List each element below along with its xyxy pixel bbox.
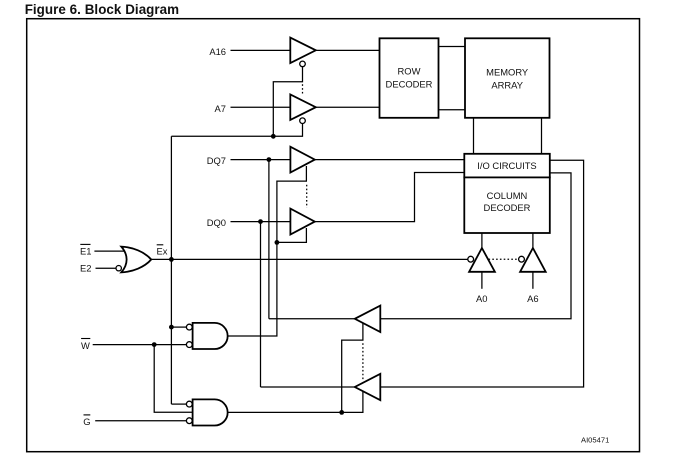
node W branch junction (152, 342, 157, 347)
or gate E1 E2 (121, 247, 151, 273)
wire Ex vertical (170, 136, 172, 404)
buffer DQ7 (290, 147, 314, 173)
svg-text:MEMORY: MEMORY (486, 67, 529, 78)
wire A6 buffer input stub (532, 272, 534, 289)
bubble G gate upper input (186, 401, 192, 407)
wire E2 input (96, 267, 117, 269)
node read enable junction (339, 410, 344, 415)
wire E1 input (94, 250, 124, 252)
svg-text:DECODER: DECODER (386, 79, 433, 90)
bubble W gate upper input (186, 324, 192, 330)
wire memory array to io circuits left (473, 118, 475, 155)
svg-text:A6: A6 (527, 293, 538, 304)
buffer A0 (469, 248, 495, 272)
svg-text:A16: A16 (209, 46, 226, 57)
wire Ex to G gate (171, 403, 186, 405)
svg-text:DECODER: DECODER (484, 202, 531, 213)
svg-text:DQ7: DQ7 (207, 155, 226, 166)
wire dotted ellipsis A0-A6 (489, 258, 519, 260)
wire DQ0 buffer to io circuits (313, 173, 465, 222)
wire dotted ellipsis DQ7-DQ0 (306, 185, 308, 208)
wire W branch to G gate (154, 345, 193, 413)
bubble A0 enable (468, 256, 474, 262)
wire G input (95, 420, 186, 422)
svg-text:E2: E2 (80, 263, 91, 274)
box memory array (465, 38, 550, 118)
bubble A16 enable (300, 61, 306, 67)
buffer A7 (290, 95, 316, 120)
bubble A6 enable (519, 256, 525, 262)
wire DQ7 buffer to io circuits (313, 159, 465, 161)
wire A0 buffer input stub (481, 272, 483, 289)
node Ex junction (169, 257, 174, 262)
wire row decoder to memory array upper (439, 46, 466, 48)
bubble G gate lower input (186, 418, 192, 424)
wire row decoder to memory array lower (439, 109, 466, 111)
wire dotted ellipsis A16-A7 (302, 84, 304, 94)
nand gate W (193, 323, 228, 349)
buffer A16 (290, 38, 316, 63)
svg-text:A7: A7 (215, 103, 226, 114)
wire DQ0 buffer enable (277, 228, 307, 242)
wire Ex output to A0 A6 enables (151, 258, 468, 260)
wire io circuits right feedback inner (380, 173, 572, 319)
wire A7 input (231, 106, 293, 108)
node write enable junction (275, 240, 280, 245)
svg-text:E1: E1 (80, 246, 91, 257)
svg-text:W: W (81, 340, 90, 351)
node Ex to W gate junction (169, 325, 174, 330)
svg-text:ROW: ROW (398, 66, 421, 77)
wire A16 input (231, 49, 293, 51)
node DQ7 junction (267, 157, 272, 162)
read buffer 1 (355, 306, 381, 332)
buffer DQ0 (290, 209, 314, 235)
wire DQ0 input (231, 221, 293, 223)
wire column decoder to A0 buffer (481, 233, 483, 252)
wire W input (93, 344, 187, 346)
node DQ0 junction (258, 219, 263, 224)
wire column decoder to A6 buffer (532, 233, 534, 252)
svg-text:Ex: Ex (157, 246, 168, 257)
svg-text:COLUMN: COLUMN (487, 190, 528, 201)
wire A16 buffer to row decoder (314, 49, 380, 51)
bubble E2 input (116, 266, 121, 271)
box io circuits (464, 154, 550, 178)
wire DQ7 input (231, 159, 293, 161)
wire Ex to W gate (171, 326, 186, 328)
svg-text:I/O CIRCUITS: I/O CIRCUITS (477, 160, 536, 171)
wire read buffer1 output (269, 318, 356, 320)
read buffer 2 (355, 374, 381, 400)
wire memory array to io circuits right (541, 118, 543, 155)
wire dotted ellipsis read buffers (362, 343, 364, 381)
wire read buffer2 output (261, 386, 357, 388)
wire io circuits right feedback outer (380, 160, 584, 387)
wire A7 buffer enable (171, 122, 302, 136)
bubble W gate lower input (186, 342, 192, 348)
wire DQ0 data vertical (260, 222, 262, 387)
svg-text:DQ0: DQ0 (207, 217, 226, 228)
nand gate G (193, 399, 228, 425)
wire read enable branch to buffer 1 (342, 321, 363, 412)
box column decoder (464, 177, 550, 233)
box row decoder (380, 38, 439, 118)
buffer A6 (520, 248, 546, 272)
wire A7 buffer to row decoder (314, 106, 380, 108)
bubble A7 enable (300, 118, 306, 124)
wire G gate output read enable (227, 390, 363, 413)
svg-text:A0: A0 (476, 293, 487, 304)
svg-text:ARRAY: ARRAY (491, 80, 523, 91)
svg-text:AI05471: AI05471 (581, 436, 609, 445)
svg-text:Figure 6. Block Diagram: Figure 6. Block Diagram (25, 2, 179, 17)
svg-text:G: G (83, 416, 90, 427)
wire write enable vertical (227, 166, 306, 336)
node A16 A7 enable junction (271, 134, 276, 139)
wire DQ7 data vertical (268, 160, 270, 319)
wire A16 buffer enable (273, 66, 302, 136)
